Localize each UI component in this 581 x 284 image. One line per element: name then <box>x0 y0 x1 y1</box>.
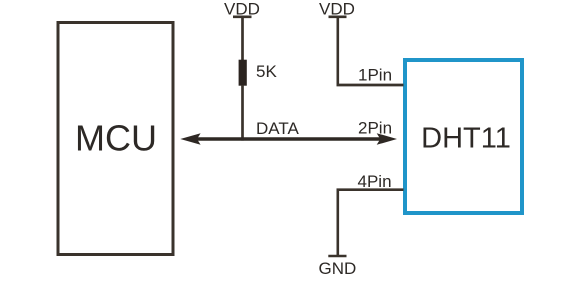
arrowhead toward MCU <box>180 133 200 145</box>
wire DATA bus shaft (MCU to DHT11 pin 2) <box>196 137 381 141</box>
svg-text:5K: 5K <box>256 62 277 81</box>
svg-text:GND: GND <box>319 259 357 278</box>
wire VDD to resistor R1 top <box>241 17 244 61</box>
DHT11 box <box>405 60 522 213</box>
resistor R1 body <box>239 60 247 86</box>
wire pin 4 horizontal from DHT11 <box>337 188 404 191</box>
power VDD (left) rail bar <box>233 15 252 18</box>
svg-text:MCU: MCU <box>75 118 157 159</box>
svg-text:1Pin: 1Pin <box>358 66 392 85</box>
svg-text:DHT11: DHT11 <box>421 123 511 155</box>
wire VDD (right) down to pin 1 <box>336 17 339 85</box>
wire pin 4 down to ground <box>336 190 339 256</box>
wire pin 1 horizontal into DHT11 <box>337 84 404 87</box>
power VDD (right) rail bar <box>329 15 347 18</box>
arrowhead toward DHT11 <box>377 133 397 145</box>
wire resistor R1 bottom to DATA node <box>241 85 244 141</box>
ground rail bar <box>328 255 346 258</box>
svg-text:2Pin: 2Pin <box>358 119 392 138</box>
svg-text:4Pin: 4Pin <box>358 172 392 191</box>
svg-text:DATA: DATA <box>256 119 299 138</box>
MCU box <box>58 23 173 255</box>
